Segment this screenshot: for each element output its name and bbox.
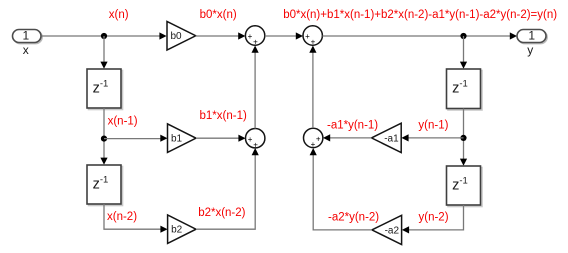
wire sum3 up -> sum1: [254, 53, 256, 129]
svg-text:+: +: [253, 38, 258, 47]
output port Out1 "y": [517, 28, 547, 43]
svg-text:1: 1: [528, 28, 535, 42]
sum U1 (top-left adder): [245, 26, 264, 47]
node y(n) junction: [460, 33, 466, 39]
svg-text:b2*x(n-2): b2*x(n-2): [198, 207, 245, 219]
svg-text:+: +: [316, 134, 321, 143]
wire sum4 up -> sum2: [312, 53, 314, 129]
wire delay1 -> delay2: [103, 108, 105, 158]
sum U4 (middle-right adder): [304, 128, 323, 149]
svg-text:-a1: -a1: [384, 133, 399, 144]
svg-text:x(n): x(n): [109, 9, 129, 21]
node y(n-1) junction: [460, 135, 466, 141]
delay block z^-1 (y(n) -> y(n-1)): [447, 69, 483, 110]
svg-text:b1: b1: [171, 134, 183, 145]
svg-text:-a1*y(n-1): -a1*y(n-1): [327, 120, 378, 132]
wire x(n-2) elbow -> b2: [104, 204, 161, 229]
gain -a1 (points left): [372, 123, 402, 152]
wire y(n) down to delay3: [463, 36, 465, 62]
svg-text:x(n-2): x(n-2): [107, 211, 137, 223]
svg-text:+: +: [311, 140, 316, 149]
node x(n) junction: [101, 33, 107, 39]
gain b1: [168, 124, 197, 152]
svg-text:-a2: -a2: [385, 225, 400, 236]
svg-text:y(n-1): y(n-1): [418, 120, 448, 132]
svg-text:b1*x(n-1): b1*x(n-1): [200, 110, 247, 122]
wire delay3 -> delay4: [463, 109, 465, 160]
delay block z^-1 (x(n-1) -> x(n-2)): [87, 165, 123, 206]
delay block z^-1 (x(n) -> x(n-1)): [87, 69, 123, 110]
wire b2 -> up -> sum3: [196, 155, 255, 229]
gain b2: [168, 215, 196, 243]
wire x(n-1) -> b1: [104, 138, 161, 140]
sum U2 (top-right adder): [303, 26, 322, 47]
delay block z^-1 (y(n-1) -> y(n-2)): [447, 166, 483, 207]
wire b0 -> sum1: [196, 35, 239, 37]
svg-text:y: y: [527, 43, 533, 57]
sum U3 (middle-left adder): [246, 129, 265, 150]
svg-text:b0*x(n)+b1*x(n-1)+b2*x(n-2)-a1: b0*x(n)+b1*x(n-1)+b2*x(n-2)-a1*y(n-1)-a2…: [283, 9, 557, 21]
input port In1 "x": [13, 28, 43, 43]
svg-text:b0*x(n): b0*x(n): [200, 9, 237, 21]
svg-text:1: 1: [23, 28, 30, 42]
svg-text:+: +: [253, 140, 258, 149]
wire y(n-2) elbow -> -a2: [409, 205, 464, 230]
wire -a1 -> sum4: [330, 137, 372, 139]
svg-text:-a2*y(n-2): -a2*y(n-2): [328, 212, 379, 224]
wire sum2 -> out port: [322, 35, 510, 37]
svg-text:y(n-2): y(n-2): [419, 211, 449, 223]
svg-text:+: +: [311, 38, 316, 47]
gain -a2 (points left): [372, 215, 402, 244]
wire b1 -> sum3: [196, 137, 239, 139]
svg-text:x: x: [23, 43, 29, 57]
wire -a2 -> up -> sum4: [313, 155, 372, 230]
wire x -> b0: [42, 35, 161, 37]
svg-text:+: +: [248, 32, 253, 41]
wire sum1 -> sum2: [265, 35, 296, 37]
svg-text:b2: b2: [171, 225, 183, 236]
svg-text:+: +: [248, 135, 253, 144]
wire x(n) down to delay1: [103, 36, 105, 62]
svg-text:+: +: [305, 32, 310, 41]
svg-text:b0: b0: [171, 31, 183, 42]
svg-text:x(n-1): x(n-1): [108, 115, 138, 127]
gain b0: [167, 22, 196, 51]
node x(n-1) junction: [101, 136, 107, 142]
wire y(n-1) -> -a1: [409, 137, 464, 139]
